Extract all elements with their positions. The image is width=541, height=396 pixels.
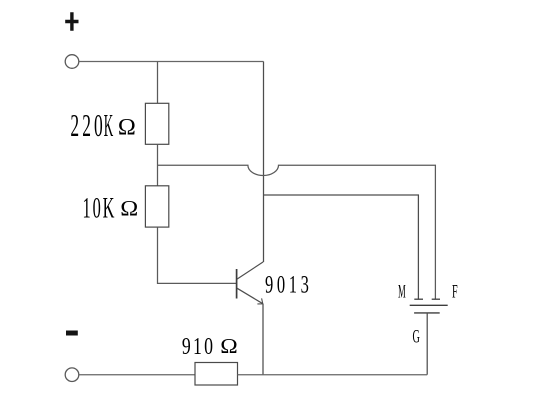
wire bottom rail left bbox=[79, 374, 195, 376]
svg-text:Ω: Ω bbox=[118, 115, 136, 140]
wire collector node to M bbox=[264, 195, 419, 299]
wire to R1 bbox=[157, 62, 159, 104]
svg-text:910: 910 bbox=[182, 333, 215, 360]
minus polarity label bbox=[66, 331, 78, 336]
svg-text:F: F bbox=[452, 282, 458, 302]
positive terminal bbox=[65, 55, 79, 69]
svg-text:M: M bbox=[398, 282, 406, 302]
wire divider node to F with hop bbox=[158, 165, 436, 299]
piezo transducer top plate bbox=[410, 304, 448, 306]
svg-text:Ω: Ω bbox=[220, 334, 237, 358]
transistor Q1 emitter lead bbox=[237, 288, 263, 303]
negative terminal bbox=[65, 368, 79, 382]
svg-text:9013: 9013 bbox=[265, 270, 313, 298]
transistor Q1 base bar bbox=[236, 269, 238, 299]
wire collector vertical bbox=[263, 62, 265, 263]
wire R2 to base bbox=[158, 227, 237, 283]
resistor R3 910 bbox=[195, 363, 238, 386]
electrode plate M bbox=[414, 298, 423, 300]
svg-text:10K: 10K bbox=[83, 191, 117, 225]
resistor R1 220K bbox=[145, 103, 168, 144]
svg-text:220: 220 bbox=[70, 108, 105, 144]
piezo transducer bottom plate bbox=[414, 312, 440, 314]
svg-text:Ω: Ω bbox=[120, 197, 138, 222]
wire emitter vertical bbox=[262, 304, 264, 375]
transistor Q1 collector lead bbox=[237, 262, 263, 279]
electrode plate F bbox=[432, 298, 440, 300]
svg-text:G: G bbox=[413, 328, 420, 348]
wire bottom rail right bbox=[238, 374, 428, 376]
svg-text:K: K bbox=[104, 109, 114, 144]
emitter arrowhead bbox=[257, 298, 262, 304]
plus polarity label bbox=[65, 12, 78, 31]
wire R1 to R2 bbox=[157, 144, 159, 186]
resistor R2 10K bbox=[145, 186, 168, 227]
wire top rail bbox=[79, 61, 264, 63]
wire G to bottom rail bbox=[426, 313, 428, 375]
